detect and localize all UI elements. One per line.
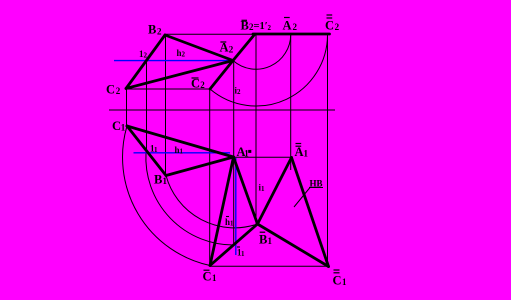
- wire: vertical projection line through Bbar: [255, 34, 257, 224]
- wire: true-size edge Abarbar1-Cbarbar1: [292, 158, 329, 267]
- svg-text:1: 1: [261, 185, 265, 193]
- svg-text:1: 1: [268, 236, 273, 246]
- wire: triangle edge B2-C2: [126, 35, 165, 89]
- wire: leader line to HB label: [294, 188, 310, 208]
- svg-text:1: 1: [212, 273, 217, 283]
- svg-text:2: 2: [157, 27, 162, 37]
- svg-text:C: C: [203, 270, 212, 284]
- node Cbarbar1 label: [333, 270, 348, 288]
- wire: triangle edge C1-A1: [127, 126, 234, 157]
- wire: underline of HB label: [309, 187, 323, 189]
- wire: rotated hbar1 (blue vertical): [235, 158, 237, 255]
- svg-text:2: 2: [200, 80, 205, 90]
- svg-text:2: 2: [237, 88, 241, 96]
- node Abar2 label (mid): [220, 41, 234, 55]
- node HB (true size) label: [310, 179, 323, 189]
- wire: horizontal base line Cbar1 to Cbarbar1: [210, 265, 329, 267]
- svg-text:A: A: [295, 145, 304, 159]
- wire: triangle edge B2-A2: [165, 35, 233, 61]
- svg-text:B: B: [148, 23, 156, 37]
- wire: horizontal displacement line B2 to Bbar2: [165, 33, 253, 35]
- node C2 label: [106, 83, 121, 97]
- node C1 label: [112, 119, 126, 133]
- node B1 label: [154, 173, 168, 187]
- wire: horizontal line h1 (blue): [134, 152, 231, 154]
- wire: vertical projection line through Abar: [290, 34, 292, 170]
- wire: rotated edge A1-Cbar1: [210, 157, 234, 266]
- wire: horizontal displacement line A1 to Abarbar1: [234, 156, 292, 158]
- wire: vertical projection line through Cbarbar: [327, 34, 329, 267]
- wire: horizontal line h2 (blue): [114, 60, 233, 62]
- svg-text:1: 1: [121, 123, 126, 133]
- node Cbar1 label: [203, 270, 218, 284]
- arc: rotation of A2 about axis point: [233, 34, 291, 69]
- wire: triangle edge B1-A1: [166, 157, 234, 176]
- node h2 label: [177, 48, 186, 59]
- node 11 label: [150, 144, 158, 155]
- node B2 label: [148, 23, 162, 37]
- arc: rotation of point 1 about A1: [146, 153, 235, 246]
- wire: vertical projection line through C2-C1: [126, 89, 128, 127]
- arc: rotation of B1 about A1: [166, 176, 258, 228]
- node Bbar2=1'2 label: [241, 19, 272, 33]
- svg-text:1: 1: [163, 176, 168, 186]
- node i2 label: [235, 86, 242, 97]
- svg-text:=1′: =1′: [254, 21, 268, 32]
- svg-text:2: 2: [335, 22, 340, 32]
- svg-text:C: C: [325, 19, 334, 33]
- wire: vertical projection line through A2-A1 (axis i): [233, 61, 235, 245]
- wire: vertical projection line through B2-B1: [165, 35, 167, 176]
- svg-text:2: 2: [144, 52, 148, 60]
- arc: rotation of Cbar2 about axis point: [210, 34, 328, 106]
- node 12 label: [139, 49, 148, 60]
- node Bbar1 label: [259, 232, 273, 246]
- wire: triangle edge C1-B1: [127, 126, 166, 176]
- svg-text:C: C: [106, 83, 115, 97]
- node Abar2 top label: [283, 18, 298, 33]
- svg-text:C: C: [333, 274, 342, 288]
- svg-text:A: A: [220, 41, 229, 55]
- wire: true-size edge Bbar1-Cbarbar1: [258, 224, 329, 267]
- svg-text:A: A: [283, 19, 292, 33]
- wire: rotated edge Bbar1-Cbar1: [210, 224, 258, 266]
- svg-text:2: 2: [116, 86, 121, 96]
- node Cbar2 label: [191, 77, 205, 91]
- svg-text:B: B: [154, 173, 162, 187]
- svg-text:1: 1: [180, 148, 184, 156]
- svg-text:2: 2: [229, 45, 234, 55]
- svg-text:НВ: НВ: [310, 179, 323, 189]
- wire: true-length top line Bbar2-Cbarbar2: [253, 33, 330, 36]
- node Abarbar1 label: [295, 144, 309, 160]
- svg-text:1: 1: [230, 220, 234, 228]
- node h1 label: [175, 145, 184, 156]
- svg-text:2: 2: [182, 51, 186, 59]
- svg-text:2: 2: [268, 24, 272, 32]
- svg-text:C: C: [112, 119, 121, 133]
- node 1bar1 label: [237, 247, 245, 258]
- wire: triangle edge C2-A2: [126, 61, 233, 89]
- node hbar1 label: [225, 217, 234, 228]
- svg-text:B: B: [259, 233, 267, 247]
- wire: true-size edge Bbar1-Abarbar1: [258, 158, 292, 225]
- wire: edge-view segment A2-Bbar2: [233, 35, 255, 61]
- svg-text:2: 2: [293, 22, 298, 32]
- wire: rotated edge A1-Bbar1: [234, 157, 258, 224]
- wire: vertical projection line through 1: [146, 61, 148, 153]
- svg-text:1: 1: [342, 277, 347, 287]
- svg-text:1: 1: [241, 250, 245, 258]
- node Cbarbar2 label: [325, 15, 340, 33]
- svg-text:B: B: [241, 19, 249, 33]
- wire: edge-view segment A2-Cbar2: [210, 61, 233, 90]
- wire: horizontal displacement line C2 to Cbar2: [126, 88, 210, 90]
- svg-text:1: 1: [154, 146, 158, 154]
- svg-text:C: C: [191, 77, 200, 91]
- wire: vertical projection line through Cbar: [209, 89, 211, 266]
- node i1 label: [259, 183, 266, 194]
- svg-text:1: 1: [304, 149, 309, 159]
- node A1 label with axis marker: [237, 145, 252, 159]
- arc: rotation of C1 about A1: [123, 126, 210, 266]
- node: projection axis x: [109, 109, 335, 111]
